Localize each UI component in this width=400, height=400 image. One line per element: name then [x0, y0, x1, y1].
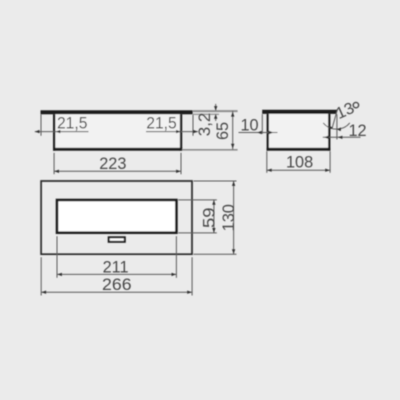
degree symbol circle — [353, 102, 358, 107]
svg-text:59: 59 — [201, 208, 219, 229]
svg-text:21,5: 21,5 — [146, 115, 177, 133]
arrow 12 left — [324, 136, 329, 139]
arrow 211 left — [57, 273, 62, 276]
extension line 59 top — [178, 199, 217, 201]
extension line box bottom (for 65) — [182, 149, 237, 151]
extension line flange left edge — [40, 115, 42, 136]
arrow 59 bottom — [212, 228, 215, 233]
extension line 108 right — [329, 151, 331, 173]
arrow 130 top — [232, 181, 235, 186]
dimension line 3,2 lower segment — [215, 114, 217, 121]
arrow 13deg left (on arc) — [329, 126, 333, 130]
latch button — [109, 237, 125, 242]
svg-text:266: 266 — [102, 276, 132, 294]
dimension line 266 — [41, 291, 192, 293]
svg-text:21,5: 21,5 — [57, 115, 88, 133]
extension line flange right edge (12 / 13deg vertical ref) — [336, 114, 338, 139]
extension line 266 right — [191, 257, 193, 295]
arrow 223 left — [54, 170, 59, 173]
arrow 65 bottom — [231, 144, 234, 149]
svg-text:10: 10 — [240, 116, 258, 134]
box right wall — [328, 114, 330, 151]
flange plate (section) — [41, 110, 193, 114]
extension line flange bottom (for 3,2) — [193, 113, 219, 115]
arrow 10 left — [257, 131, 262, 134]
arrow 21,5 right outer — [193, 130, 198, 133]
svg-text:211: 211 — [103, 258, 129, 276]
dimension line 211 — [57, 273, 176, 275]
box right wall — [180, 114, 182, 150]
dimension line 21,5 left — [35, 131, 89, 133]
extension line flange right edge — [192, 115, 194, 136]
arrow 65 top — [231, 112, 234, 117]
svg-text:3,2: 3,2 — [196, 113, 214, 137]
13 degree dimension arc — [323, 123, 350, 129]
box bottom wall — [267, 148, 331, 151]
dimension line 108 — [267, 169, 330, 171]
arrow 108 left — [267, 169, 272, 172]
extension line 223 left — [53, 153, 55, 174]
dimension line 10 — [239, 132, 278, 134]
box left wall — [267, 114, 269, 151]
svg-text:223: 223 — [99, 155, 126, 173]
svg-text:65: 65 — [214, 122, 232, 140]
arrow 266 right — [187, 291, 192, 294]
arrow 21,5 left inner — [56, 130, 61, 133]
dimension line 65 — [232, 111, 234, 150]
inner opening rectangle — [57, 200, 176, 233]
extension line 266 left — [40, 257, 42, 295]
outer flange rectangle — [41, 181, 192, 254]
extension line 211 right — [175, 236, 177, 278]
extension line flange top (for 3,2 and 65) — [193, 110, 238, 112]
box left wall — [53, 114, 55, 150]
dimension line 59 — [213, 200, 215, 233]
dimension line 21,5 right — [146, 131, 198, 133]
arrow 130 bottom — [232, 249, 235, 254]
arrow 211 right — [172, 273, 177, 276]
svg-text:130: 130 — [220, 204, 238, 231]
arrow 223 right — [176, 170, 181, 173]
dimension line 223 — [54, 170, 181, 172]
arrow 13deg right (on arc) — [337, 127, 341, 131]
arrow 10 right — [269, 131, 274, 134]
svg-text:108: 108 — [286, 154, 313, 172]
arrow 266 left — [41, 291, 46, 294]
dimension line 130 — [233, 181, 235, 254]
extension line 223 right — [180, 153, 182, 174]
box bottom wall — [53, 148, 182, 151]
extension line 108 left — [266, 151, 268, 173]
extension line flange left edge (10) — [261, 114, 263, 134]
extension line 130 top — [194, 180, 237, 182]
arrow 21,5 left outer — [35, 130, 40, 133]
box interior (slightly lighter) — [55, 114, 180, 148]
dimension line 3,2 upper segment — [215, 104, 217, 111]
extension line 59 bottom — [178, 232, 217, 234]
arrow 3,2 top — [214, 106, 217, 111]
arrow 12 right — [338, 136, 343, 139]
box interior (slightly lighter) — [269, 114, 329, 148]
arrow 21,5 right inner — [176, 130, 181, 133]
extension line 211 left — [56, 236, 58, 278]
arrow 59 top — [212, 200, 215, 205]
dimension line 12 — [323, 136, 361, 138]
flange plate (section, right end cut 13deg) — [262, 110, 337, 114]
arrow 108 right — [325, 169, 330, 172]
13 degree slanted edge line — [332, 110, 337, 128]
svg-text:12: 12 — [348, 122, 366, 140]
arrow 3,2 bottom — [214, 114, 217, 119]
extension line 130 bottom — [194, 253, 237, 255]
